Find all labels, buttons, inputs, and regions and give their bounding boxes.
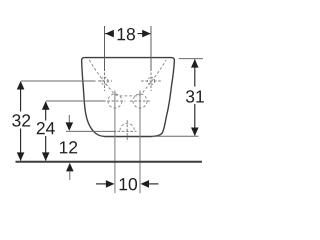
upper-right hole horizontal centerline: [141, 80, 162, 82]
dimension 18 left arrow: [105, 30, 114, 38]
dimension 12 lower tail: [69, 171, 71, 180]
extension line 31 top: [179, 58, 203, 60]
label 12: [60, 141, 77, 153]
dimension 32 bottom arrow: [17, 152, 25, 161]
upper-left hole horizontal centerline: [98, 80, 112, 82]
extension line 12 to drain hole: [66, 130, 116, 132]
dimension 24 line: [45, 102, 47, 121]
dimension 12 upper arrow: [66, 122, 74, 130]
extension line 24 to middle-left hole: [46, 100, 106, 102]
extension line 18 right vertical: [150, 26, 152, 71]
floor line: [16, 161, 203, 163]
dimension 24 bottom arrow: [42, 152, 50, 161]
extension line 10 left vertical: [114, 91, 116, 194]
dimension 10 left arrow: [106, 180, 115, 188]
middle-left hole horizontal centerline: [107, 100, 125, 102]
extension line 10 right vertical: [139, 91, 141, 194]
extension line 32 to upper-left hole: [21, 80, 96, 82]
drain hole horizontal centerline: [118, 130, 137, 132]
upper-right fixing hole circle: [147, 77, 154, 84]
middle-right hole horizontal centerline: [130, 100, 150, 102]
upper-left fixing hole circle: [101, 77, 108, 84]
drain hole vertical centerline: [126, 120, 128, 142]
ceramic bidet rear outline: [82, 58, 175, 137]
label 24: [37, 122, 55, 134]
dimension 18 line: [105, 33, 114, 35]
extension line 18 left vertical: [104, 26, 106, 71]
label 10: [120, 178, 137, 190]
dimension 32 line: [20, 82, 22, 112]
middle-right hole circle: [133, 94, 147, 108]
dimension 10 right arrow: [141, 180, 150, 188]
label 32: [12, 114, 30, 126]
upper-left hole vertical centerline: [104, 73, 106, 92]
label 18: [118, 28, 135, 40]
dimension 12 upper tail: [68, 115, 70, 123]
dimension 10 right tail: [149, 183, 159, 185]
dimension 31 bottom arrow: [191, 128, 199, 137]
dimension 31 top arrow: [191, 59, 199, 68]
bottom drain hole circle (upper arc): [120, 123, 134, 130]
upper-right hole vertical centerline: [150, 73, 152, 92]
label 31: [186, 90, 204, 102]
dimension 24 top arrow: [42, 101, 50, 110]
dimension 32 top arrow: [17, 81, 25, 90]
middle-left hole circle: [108, 94, 122, 108]
dimension 12 lower arrow: [66, 163, 74, 172]
dimension 10 left tail: [96, 183, 106, 185]
extension line 31 bottom: [152, 135, 199, 137]
dimension 31 line: [194, 60, 196, 87]
inner bowl rim (dashed): [89, 60, 166, 96]
dimension 18 right arrow: [142, 30, 151, 38]
